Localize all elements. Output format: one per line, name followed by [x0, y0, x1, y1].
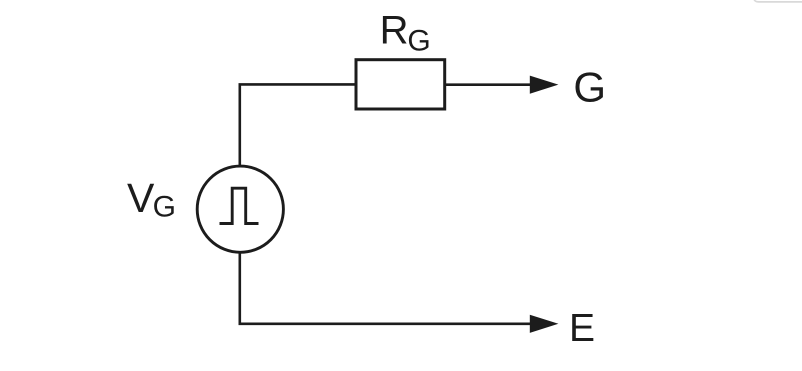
- svg-text:V: V: [127, 175, 155, 221]
- svg-text:G: G: [573, 64, 606, 111]
- label RG (resistor value): [380, 9, 431, 58]
- label VG (source name): [127, 175, 176, 224]
- arrowhead at gate terminal: [530, 76, 559, 94]
- pulse voltage source VG: [197, 166, 283, 252]
- wire: source bottom to corner and right to emitter arrow: [240, 253, 532, 324]
- svg-text:E: E: [569, 307, 595, 350]
- wire: source top to corner and right to resistor: [240, 84, 356, 165]
- wire: resistor to gate arrow: [445, 83, 532, 86]
- svg-text:G: G: [407, 24, 430, 57]
- arrowhead at emitter terminal: [530, 315, 559, 333]
- resistor RG: [356, 60, 445, 109]
- svg-text:G: G: [153, 191, 176, 224]
- pulse waveform symbol: [220, 188, 259, 223]
- svg-text:R: R: [380, 9, 409, 53]
